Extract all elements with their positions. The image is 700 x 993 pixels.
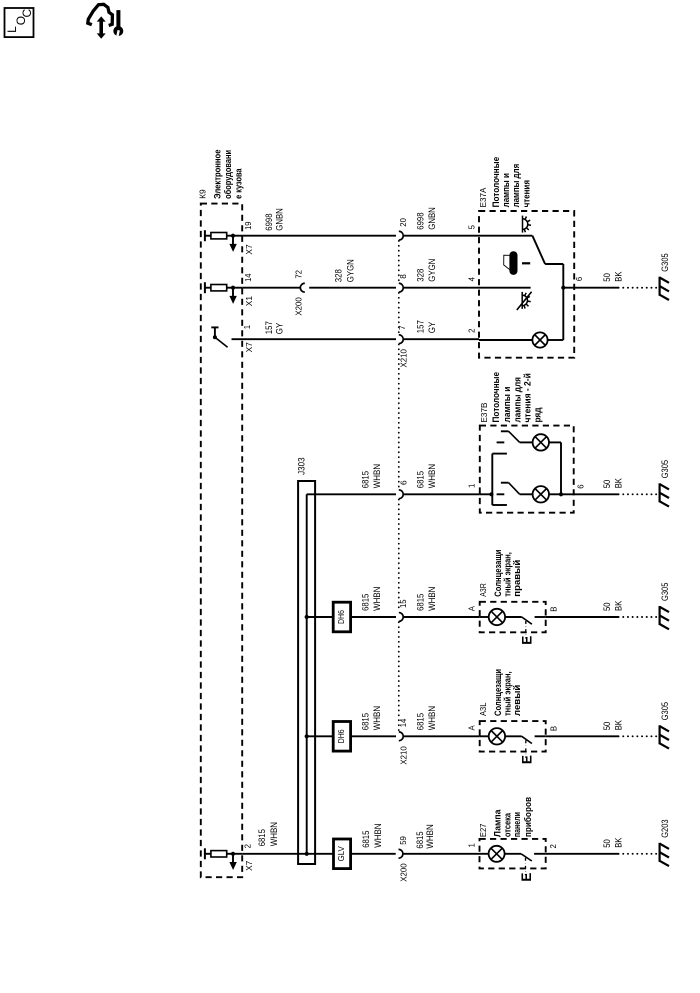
E37A lamp-off icon	[521, 292, 523, 309]
svg-text:59: 59	[399, 836, 408, 845]
wire 6998 GNBN from K9:19 to X210	[242, 235, 396, 237]
svg-text:72: 72	[294, 270, 303, 278]
svg-text:14: 14	[399, 718, 408, 727]
svg-text:панели: панели	[512, 812, 523, 837]
svg-text:A: A	[468, 725, 477, 731]
svg-text:50: 50	[602, 602, 612, 611]
option box DH6	[333, 602, 350, 632]
mechanical link E	[525, 621, 527, 639]
E37A pin 6 wire 50 BK to ground	[563, 287, 618, 289]
svg-text:правый: правый	[512, 560, 523, 597]
svg-text:50: 50	[602, 722, 612, 731]
svg-text:е кузова: е кузова	[233, 168, 244, 199]
svg-text:G305: G305	[660, 702, 670, 720]
wire 6815 WHBN from J303 to X210 (E37B row)	[307, 493, 396, 495]
svg-text:G305: G305	[660, 460, 670, 478]
svg-text:GYGN: GYGN	[346, 259, 356, 282]
svg-text:8: 8	[399, 274, 408, 279]
E37B lower reading lamp and switch	[497, 493, 505, 495]
svg-text:WHBN: WHBN	[372, 464, 382, 488]
wire through J303	[305, 852, 309, 856]
svg-text:G305: G305	[660, 583, 670, 601]
svg-text:6: 6	[575, 277, 584, 281]
svg-text:X200: X200	[295, 297, 304, 316]
LOC reference box	[5, 8, 34, 37]
svg-text:Электронное: Электронное	[213, 150, 224, 199]
svg-text:50: 50	[602, 480, 612, 489]
svg-text:B: B	[549, 607, 558, 612]
svg-text:19: 19	[244, 222, 253, 230]
svg-text:C: C	[20, 9, 34, 18]
wire 50 BK to ground (A3L)	[546, 735, 619, 737]
svg-text:5: 5	[468, 224, 477, 229]
sunvisor lamp A3R dashed box	[480, 602, 546, 633]
svg-text:15: 15	[399, 599, 408, 608]
svg-text:WHBN: WHBN	[269, 822, 279, 846]
K9 internal switch pin 1	[211, 326, 218, 328]
svg-text:GLV: GLV	[336, 846, 346, 861]
svg-text:6: 6	[576, 484, 585, 488]
svg-text:WHBN: WHBN	[425, 824, 435, 848]
E37B internals	[480, 493, 492, 495]
wire 328 GYGN from K9:14 to X200	[242, 287, 300, 289]
ground G305 (A3L)	[658, 725, 660, 744]
svg-text:E37A: E37A	[478, 187, 488, 207]
svg-text:A3L: A3L	[478, 702, 488, 716]
svg-text:E37B: E37B	[479, 402, 489, 422]
wire 157 GY from K9:1 to X210	[232, 338, 397, 340]
wire 6815 WHBN to X210 (A3R)	[351, 616, 396, 618]
E37A lamp	[479, 339, 532, 341]
svg-text:6815: 6815	[415, 471, 425, 488]
inline connector X200 pin 72	[300, 283, 304, 292]
A3R lamp	[480, 616, 489, 618]
connector X210 pin 20	[399, 231, 403, 240]
svg-text:2: 2	[244, 844, 253, 848]
A3R switch	[505, 616, 522, 618]
ground G305 (E37A)	[658, 277, 660, 296]
wire 6815 WHBN from K9:2 to J303	[242, 853, 333, 855]
svg-text:левый: левый	[512, 685, 523, 716]
svg-text:157: 157	[264, 321, 274, 334]
dome lamp E37B dashed box	[480, 426, 574, 513]
svg-text:WHBN: WHBN	[427, 587, 437, 611]
svg-text:1: 1	[468, 484, 477, 488]
connector X210 pin 7	[399, 335, 403, 344]
ground G305 (A3R)	[658, 606, 660, 625]
svg-text:50: 50	[602, 273, 612, 282]
svg-text:20: 20	[399, 218, 408, 227]
svg-text:GY: GY	[427, 322, 437, 334]
svg-text:6815: 6815	[415, 831, 425, 848]
wire 157 GY from X210 to E37A:2	[403, 338, 479, 340]
svg-text:6815: 6815	[360, 594, 370, 611]
svg-text:L: L	[5, 26, 19, 33]
J303 tap (A3L)	[305, 734, 309, 738]
svg-text:X7: X7	[245, 342, 254, 352]
svg-text:X210: X210	[400, 348, 409, 367]
connector X210 dotted tie-line	[398, 241, 400, 283]
svg-text:157: 157	[415, 320, 425, 333]
svg-text:BK: BK	[614, 720, 624, 730]
svg-text:WHBN: WHBN	[427, 464, 437, 488]
mechanical link E	[525, 740, 527, 758]
svg-text:A: A	[468, 605, 477, 611]
sunvisor lamp A3L dashed box	[480, 721, 546, 752]
svg-text:GNBN: GNBN	[427, 207, 437, 230]
svg-text:1: 1	[243, 325, 252, 329]
svg-text:B: B	[549, 726, 558, 731]
svg-text:6: 6	[399, 480, 408, 485]
svg-text:6815: 6815	[415, 594, 425, 611]
E27 lamp	[480, 853, 489, 855]
wire 50 BK to ground (E27)	[546, 853, 619, 855]
svg-text:WHBN: WHBN	[427, 706, 437, 730]
wire 328 GYGN from X200 to X210	[309, 287, 396, 289]
svg-text:К9: К9	[197, 189, 207, 199]
BCM K9 dashed box	[201, 204, 242, 878]
wire 6815 WHBN to A3L:A	[403, 735, 480, 737]
wire 6815 WHBN to A3R:A	[403, 616, 480, 618]
E37A lamp-on icon	[522, 216, 524, 233]
svg-text:GY: GY	[275, 323, 285, 335]
ground G305 (E37B)	[658, 483, 660, 502]
svg-text:X7: X7	[245, 861, 254, 871]
E27 switch	[505, 853, 521, 855]
mechanical link E	[525, 858, 527, 876]
option box DH6	[333, 722, 350, 752]
J303 tap (A3R)	[305, 615, 309, 619]
E37A internal switch	[479, 235, 532, 237]
svg-text:X1: X1	[245, 296, 254, 306]
svg-text:328: 328	[334, 269, 344, 282]
connector X210 pin 6	[399, 490, 403, 499]
svg-text:1: 1	[468, 843, 477, 847]
svg-text:7: 7	[398, 325, 407, 330]
wire 50 BK to ground (A3R)	[546, 616, 619, 618]
connector X200 pin 59	[399, 849, 403, 858]
vehicle icon with double arrow and wrench	[88, 4, 113, 25]
K9 output driver pin 19	[204, 230, 206, 241]
dome lamp E37A dashed box	[479, 211, 574, 358]
instrument panel compartment lamp E27 dashed box	[480, 839, 546, 869]
svg-text:WHBN: WHBN	[372, 587, 382, 611]
wire 6815 WHBN from X200 to E27:1	[403, 853, 480, 855]
svg-text:DH6: DH6	[336, 729, 346, 743]
svg-text:E27: E27	[478, 823, 488, 837]
svg-text:6815: 6815	[360, 471, 370, 488]
svg-text:Е: Е	[519, 873, 534, 882]
E37B upper reading lamp and switch	[497, 441, 505, 443]
K9 output driver pin 2 (bottom)	[204, 848, 206, 859]
A3L switch	[505, 735, 522, 737]
svg-text:328: 328	[415, 269, 425, 282]
connector X210 pin 8	[399, 283, 403, 292]
svg-text:чтения: чтения	[521, 180, 532, 207]
E37A door position icon	[504, 255, 510, 270]
option box GLV	[334, 839, 351, 869]
svg-text:6998: 6998	[415, 212, 425, 229]
ground G203	[658, 843, 660, 862]
svg-text:WHBN: WHBN	[373, 824, 383, 848]
A3L lamp	[480, 735, 489, 737]
svg-text:X210: X210	[400, 746, 409, 765]
svg-text:GNBN: GNBN	[275, 208, 285, 231]
svg-text:6815: 6815	[415, 713, 425, 730]
wire 6815 WHBN from X210 to E37B:1	[403, 493, 480, 495]
wire 328 GYGN from X210 to E37A:4	[403, 287, 479, 289]
svg-text:Потолочные: Потолочные	[491, 372, 502, 423]
svg-text:X200: X200	[400, 863, 409, 882]
svg-text:BK: BK	[614, 478, 624, 488]
svg-text:оборудовани: оборудовани	[223, 150, 234, 199]
wire 6998 GNBN from X210 to E37A:5	[403, 235, 479, 237]
svg-text:приборов: приборов	[523, 797, 534, 837]
svg-text:6998: 6998	[264, 213, 274, 230]
E37B pin 6 wire 50 BK to ground	[561, 493, 619, 495]
svg-text:GYGN: GYGN	[427, 259, 437, 282]
svg-text:2: 2	[468, 329, 477, 333]
svg-text:BK: BK	[614, 601, 624, 611]
svg-text:6815: 6815	[360, 713, 370, 730]
svg-text:4: 4	[468, 276, 477, 281]
svg-text:DH6: DH6	[336, 610, 346, 624]
svg-text:Е: Е	[519, 755, 534, 764]
svg-text:J303: J303	[297, 457, 307, 475]
svg-text:BK: BK	[614, 272, 624, 282]
svg-text:WHBN: WHBN	[372, 706, 382, 730]
wire 6815 WHBN from GLV to X200	[351, 853, 396, 855]
svg-text:G305: G305	[660, 253, 670, 271]
svg-text:X7: X7	[245, 244, 254, 254]
svg-text:6815: 6815	[257, 829, 267, 846]
svg-text:G203: G203	[660, 819, 670, 837]
wire 6815 WHBN to X210 (A3L)	[351, 735, 396, 737]
svg-text:BK: BK	[614, 838, 624, 848]
connector X210 pin 15	[399, 613, 403, 622]
svg-text:A3R: A3R	[478, 583, 488, 597]
svg-text:50: 50	[602, 839, 612, 848]
svg-text:Е: Е	[519, 636, 534, 645]
svg-text:2: 2	[549, 844, 558, 848]
K9 output driver pin 14	[204, 282, 206, 293]
svg-text:ряд: ряд	[533, 408, 544, 423]
svg-text:14: 14	[244, 273, 253, 282]
connector X210 pin 14	[399, 732, 403, 741]
svg-text:6815: 6815	[361, 831, 371, 848]
